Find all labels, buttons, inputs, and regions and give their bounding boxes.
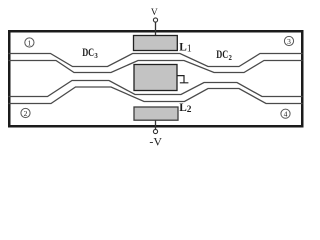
svg-text:L1: L1 xyxy=(179,41,192,54)
svg-text:-V: -V xyxy=(149,134,162,148)
svg-text:4: 4 xyxy=(284,110,288,119)
svg-text:2: 2 xyxy=(24,109,28,118)
svg-text:3: 3 xyxy=(287,37,291,46)
svg-text:1: 1 xyxy=(28,38,32,47)
port 3 circle xyxy=(284,36,293,45)
port 1 circle xyxy=(25,38,34,47)
port 2 circle xyxy=(21,108,30,117)
terminal -V circle xyxy=(153,129,157,133)
port 4 circle xyxy=(281,109,290,118)
waveguide lower arm top line xyxy=(9,81,303,97)
svg-text:DC2: DC2 xyxy=(216,49,232,62)
terminal V circle xyxy=(153,18,157,22)
wire V input xyxy=(155,22,157,36)
svg-text:L2: L2 xyxy=(179,102,192,115)
waveguide upper arm bottom line xyxy=(9,61,303,73)
svg-text:DC3: DC3 xyxy=(82,47,98,60)
electrode top (V) xyxy=(134,36,178,51)
wire -V output xyxy=(155,120,157,129)
waveguide lower arm bottom line xyxy=(9,87,303,104)
svg-text:V: V xyxy=(151,8,158,18)
ground symbol on middle electrode xyxy=(177,76,189,83)
waveguide upper arm top line xyxy=(9,54,303,67)
substrate outline (outer box) xyxy=(9,31,302,126)
electrode middle (ground) xyxy=(134,65,177,91)
electrode bottom (-V) xyxy=(134,107,178,120)
